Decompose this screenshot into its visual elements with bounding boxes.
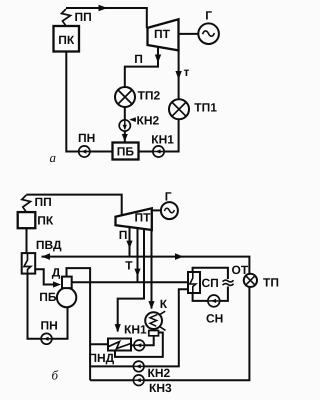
svg-text:ТП: ТП [263, 276, 279, 290]
svg-text:ПК: ПК [58, 33, 75, 47]
svg-text:ПК: ПК [37, 214, 54, 228]
svg-text:ТП1: ТП1 [194, 101, 217, 115]
svg-text:КН1: КН1 [151, 133, 174, 147]
svg-text:СП: СП [202, 276, 219, 290]
svg-text:СН: СН [206, 312, 223, 326]
svg-text:Г: Г [205, 9, 212, 23]
svg-text:т: т [184, 65, 190, 79]
svg-text:КН2: КН2 [137, 114, 160, 128]
svg-text:К: К [160, 297, 168, 311]
svg-text:ПТ: ПТ [154, 27, 171, 41]
svg-text:П: П [134, 52, 143, 66]
svg-text:ПТ: ПТ [135, 211, 152, 225]
svg-text:а: а [50, 150, 57, 165]
svg-text:КН1: КН1 [124, 323, 147, 337]
svg-text:Т: Т [125, 259, 133, 273]
svg-text:ОТ: ОТ [232, 263, 249, 277]
svg-text:ПН: ПН [41, 318, 58, 332]
svg-text:П: П [119, 228, 128, 242]
svg-text:ПП: ПП [35, 195, 52, 209]
svg-text:ПН: ПН [78, 131, 95, 145]
svg-text:КН2: КН2 [148, 366, 171, 380]
svg-text:ТП2: ТП2 [138, 89, 161, 103]
svg-text:КН3: КН3 [149, 381, 172, 395]
svg-text:ПНД: ПНД [88, 351, 114, 365]
svg-text:ПВД: ПВД [36, 238, 62, 252]
svg-text:ПП: ПП [75, 10, 92, 24]
svg-text:ПБ: ПБ [39, 290, 57, 304]
svg-text:Д: Д [52, 266, 61, 280]
svg-text:б: б [52, 368, 59, 383]
svg-text:Г: Г [165, 189, 172, 203]
svg-text:ПБ: ПБ [117, 145, 135, 159]
